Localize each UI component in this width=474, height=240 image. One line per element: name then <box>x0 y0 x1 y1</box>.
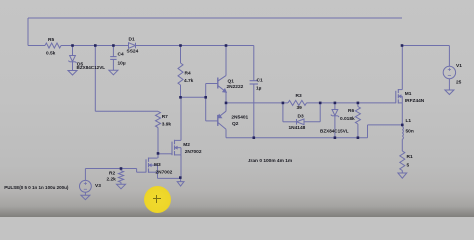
svg-text:50n: 50n <box>406 129 414 135</box>
svg-text:.tran 0 100m 4m 1m: .tran 0 100m 4m 1m <box>248 158 293 164</box>
svg-text:L1: L1 <box>406 118 412 124</box>
svg-text:R1: R1 <box>407 154 413 160</box>
svg-text:PULSE(0 5 0 1n 1n 100u 200u): PULSE(0 5 0 1n 1n 100u 200u) <box>4 185 69 190</box>
svg-text:R7: R7 <box>162 114 168 120</box>
svg-text:SS24: SS24 <box>127 49 139 55</box>
svg-text:BZX84C15VL: BZX84C15VL <box>320 128 349 133</box>
svg-text:D3: D3 <box>298 114 304 120</box>
svg-text:5: 5 <box>407 163 410 169</box>
svg-text:2N5401: 2N5401 <box>231 115 248 121</box>
svg-text:1µ: 1µ <box>256 85 262 91</box>
svg-text:2N2222: 2N2222 <box>227 84 244 90</box>
svg-text:R6: R6 <box>348 108 354 114</box>
svg-text:V1: V1 <box>456 63 462 69</box>
svg-text:Q1: Q1 <box>228 79 235 85</box>
svg-text:R5: R5 <box>48 37 54 43</box>
svg-text:M1: M1 <box>405 91 412 97</box>
svg-text:C1: C1 <box>257 77 263 83</box>
svg-text:10µ: 10µ <box>118 60 126 66</box>
svg-text:2N7002: 2N7002 <box>156 170 173 176</box>
svg-text:0.018k: 0.018k <box>340 116 355 122</box>
svg-text:1N4148: 1N4148 <box>289 125 306 131</box>
svg-text:2.2k: 2.2k <box>107 177 117 183</box>
svg-text:C4: C4 <box>118 52 124 58</box>
svg-text:39: 39 <box>297 105 303 111</box>
svg-text:M2: M2 <box>183 142 190 148</box>
svg-text:R3: R3 <box>296 93 302 99</box>
svg-text:D1: D1 <box>129 37 135 43</box>
svg-text:25: 25 <box>456 80 462 86</box>
svg-text:Q2: Q2 <box>232 121 239 127</box>
svg-text:3.9k: 3.9k <box>162 122 172 128</box>
svg-text:M3: M3 <box>154 162 161 168</box>
svg-text:IRFZ44N: IRFZ44N <box>405 98 425 104</box>
svg-text:4.7k: 4.7k <box>184 78 194 84</box>
svg-text:R2: R2 <box>109 170 115 176</box>
svg-text:0.5k: 0.5k <box>46 51 56 57</box>
svg-text:V3: V3 <box>95 183 101 189</box>
svg-text:2N7002: 2N7002 <box>185 149 202 155</box>
svg-text:BZX84C12VL: BZX84C12VL <box>77 65 106 70</box>
svg-text:R4: R4 <box>185 71 191 77</box>
